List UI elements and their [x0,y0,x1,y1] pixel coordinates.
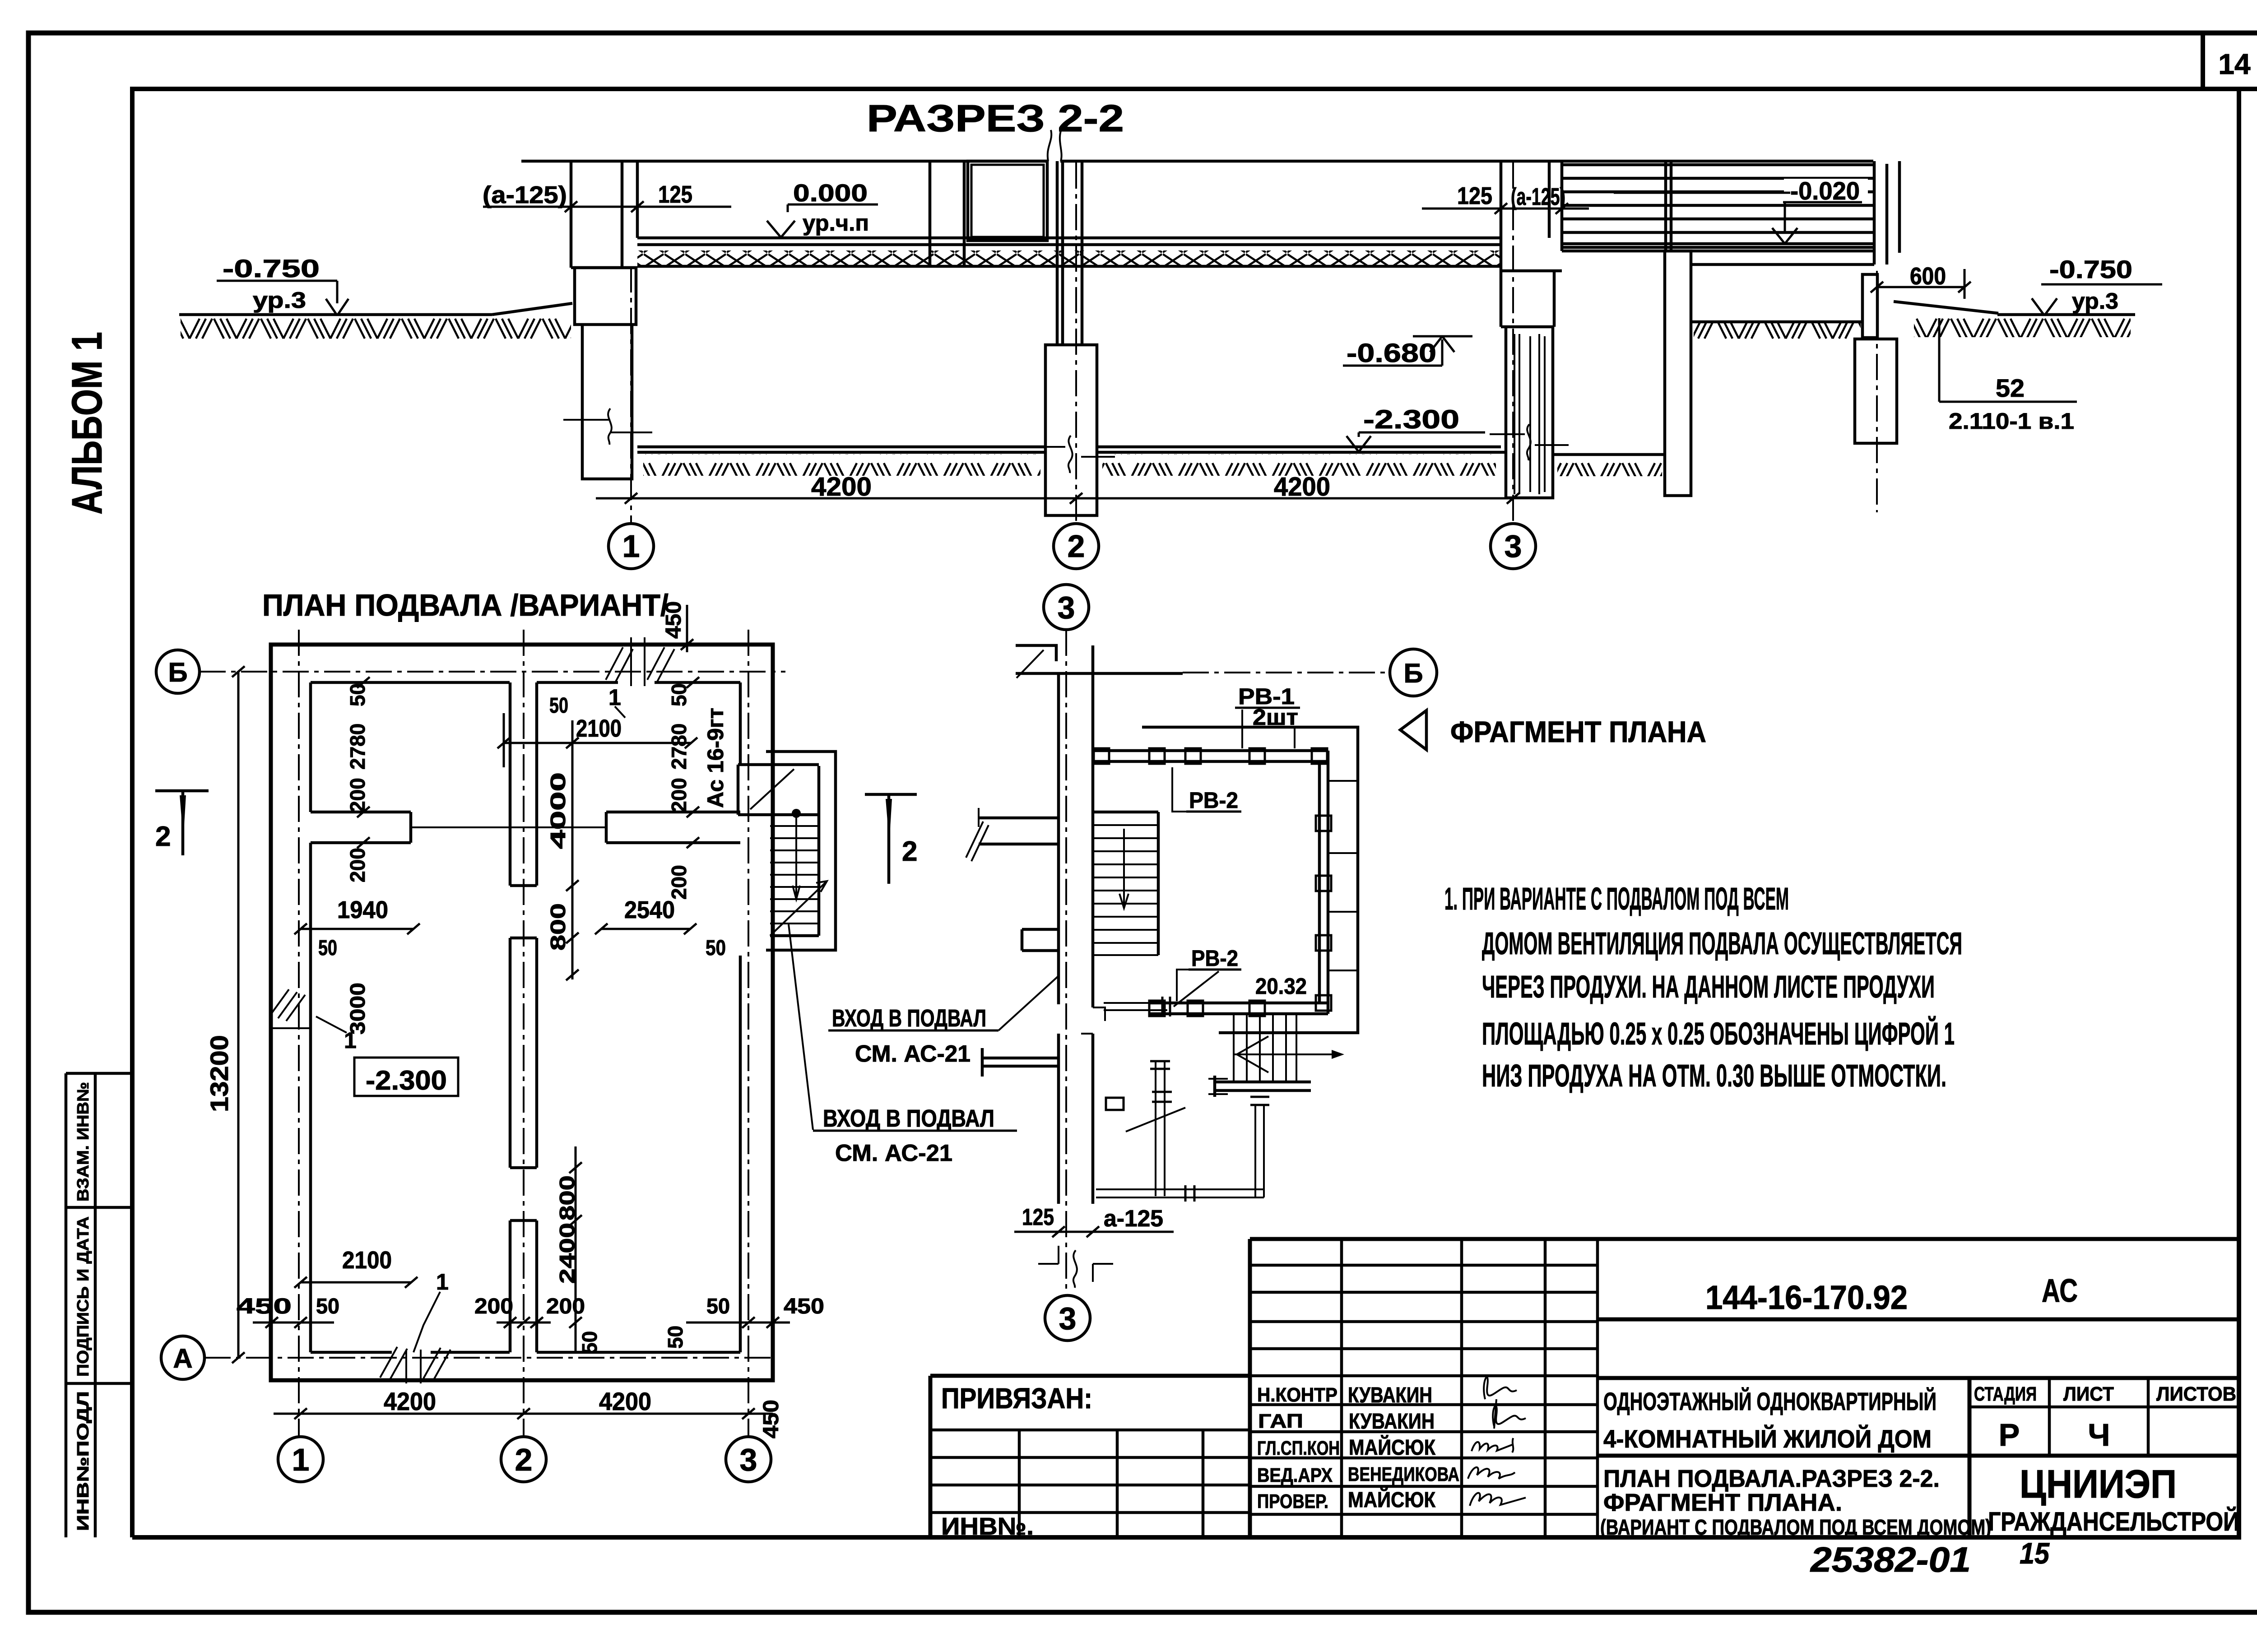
svg-text:ЦНИИЭП: ЦНИИЭП [2020,1462,2177,1506]
svg-text:Р: Р [1999,1417,2020,1452]
stair up diagonal [770,881,827,936]
svg-text:125: 125 [1022,1204,1054,1230]
vertical dim 13200 [205,666,245,1363]
left margin table [66,1073,132,1537]
svg-text:200: 200 [546,1295,585,1318]
svg-text:450: 450 [759,1400,783,1439]
axis А line [204,1357,773,1359]
svg-text:450: 450 [237,1295,292,1318]
plan axis circle 2 [501,1437,546,1482]
plan axis circle 3 [726,1437,771,1482]
svg-text:14: 14 [2218,48,2251,80]
leader diagonal to pipes [1126,1108,1185,1132]
svg-text:1: 1 [292,1442,310,1477]
svg-text:ВХОД В ПОДВАЛ: ВХОД В ПОДВАЛ [823,1105,994,1132]
svg-text:ПРОВЕР.: ПРОВЕР. [1257,1490,1328,1513]
svg-text:1940: 1940 [337,896,388,923]
svg-text:ПЛАН ПОДВАЛА /ВАРИАНТ/: ПЛАН ПОДВАЛА /ВАРИАНТ/ [262,588,669,622]
svg-text:2: 2 [155,821,171,852]
signature 2 [1493,1399,1526,1429]
left ground line [179,303,572,315]
svg-text:4200: 4200 [811,472,872,501]
piping vertical 1 [1150,1061,1172,1196]
level box -2.300 [354,1058,458,1096]
svg-text:Ас 16-9гт: Ас 16-9гт [703,708,728,808]
svg-text:2100: 2100 [342,1247,392,1274]
svg-text:АЛЬБОМ 1: АЛЬБОМ 1 [63,332,111,515]
dim 2540 [595,896,726,960]
axis 3 basement pier [1506,327,1553,498]
porch right post [1862,274,1877,338]
svg-text:ЧЕРЕЗ ПРОДУХИ. НА ДАННОМ ЛИСТЕ: ЧЕРЕЗ ПРОДУХИ. НА ДАННОМ ЛИСТЕ ПРОДУХИ [1482,969,1935,1004]
dim 125 a-125 fragment [1014,1204,1174,1237]
label РВ-2 upper [1172,767,1241,813]
plan axis 1 line [298,630,300,1437]
elevation -0.020 [1614,176,1868,244]
outer-wall ties right [1328,781,1358,970]
plan axis circle 1 [278,1437,323,1482]
svg-text:Ч: Ч [2088,1417,2110,1452]
vent opening left wall [270,989,311,1028]
plan axis 3 line [748,630,749,1437]
dim 2100 bottom [294,1247,418,1288]
signature 1 [1484,1377,1517,1399]
BASEMENT PLAN [155,588,917,1482]
svg-text:(а-125): (а-125) [1511,183,1565,210]
plan right inner wall line [739,682,742,1352]
svg-text:2100: 2100 [576,715,622,742]
fragment axis Б circle [1390,649,1437,696]
elevation mark -0.750 right [2032,255,2162,316]
svg-text:СМ. АС-21: СМ. АС-21 [835,1140,952,1166]
svg-text:ур.3: ур.3 [2072,288,2118,314]
svg-text:ГАП: ГАП [1258,1410,1303,1432]
dim 450 top rotated [662,601,693,652]
svg-text:0.000: 0.000 [793,180,868,207]
svg-text:ИНВ№ПОДЛ: ИНВ№ПОДЛ [74,1391,92,1531]
svg-text:ПОДПИСЬ И ДАТА: ПОДПИСЬ И ДАТА [74,1216,92,1377]
fragment room bottom wall [1149,1003,1328,1014]
ground floor slab lines [637,238,1501,266]
bottom dimension line 4200 4200 [274,1387,783,1439]
small table rows [1250,1265,1598,1376]
label РВ-2 lower [1177,946,1241,1001]
NOTES [1400,710,1962,1093]
exterior stair [1208,1014,1344,1097]
plan left inner wall line [309,682,312,1352]
small wall box [1106,1098,1124,1110]
section axis circle 3 [1491,524,1536,569]
bottom dims 450 50 200 200 50 450 [237,1295,824,1354]
porch deck lines [1562,165,1874,265]
svg-text:ДОМОМ ВЕНТИЛЯЦИЯ ПОДВАЛА ОСУЩЕ: ДОМОМ ВЕНТИЛЯЦИЯ ПОДВАЛА ОСУЩЕСТВЛЯЕТСЯ [1482,926,1962,961]
dim (a-125) left [483,181,731,212]
fragment room outer boundary [1142,727,1358,1033]
svg-text:ПРИВЯЗАН:: ПРИВЯЗАН: [941,1382,1092,1415]
fragment axis Б line [1183,672,1390,673]
basement floor ground hatch [643,454,1040,476]
svg-text:ЛИСТОВ: ЛИСТОВ [2156,1383,2236,1405]
svg-text:4-КОМНАТНЫЙ ЖИЛОЙ ДОМ: 4-КОМНАТНЫЙ ЖИЛОЙ ДОМ [1603,1425,1932,1453]
svg-text:25382-01: 25382-01 [1810,1540,1971,1579]
wall stub upper with break [979,818,1059,844]
fragment axis 3 line [1065,630,1067,1295]
label РВ-1 2шт [1235,684,1300,748]
svg-text:3: 3 [1059,1301,1077,1336]
svg-text:А: А [173,1343,192,1374]
porch deck joints [1666,161,1899,265]
svg-text:-2.300: -2.300 [1363,405,1459,434]
axis 2 pier break symbol [1029,436,1115,473]
house corner top left [1016,645,1183,673]
TITLE BLOCK [930,1239,2239,1579]
svg-text:ПЛОЩАДЬЮ 0.25 х 0.25 ОБОЗНАЧЕН: ПЛОЩАДЬЮ 0.25 х 0.25 ОБОЗНАЧЕНЫ ЦИФРОЙ 1 [1482,1016,1955,1051]
fragment plan pointer triangle [1400,710,1426,750]
rotated dims left wall [343,677,384,882]
central wall segment bottom [510,1220,537,1352]
svg-text:4200: 4200 [599,1387,651,1415]
svg-text:Б: Б [1403,658,1423,688]
axis 2 partition wall [1057,161,1082,345]
svg-text:3: 3 [1058,590,1075,625]
piping horizontal [1096,1185,1264,1202]
svg-text:ВЕД.АРХ: ВЕД.АРХ [1257,1464,1333,1486]
interior cross wall left part [311,812,411,843]
plan outer walls [271,645,773,1380]
pipe top run [1104,971,1219,1016]
vent squares bottom wall [1149,1001,1265,1016]
svg-text:-0.750: -0.750 [2049,255,2132,283]
left table rows [930,1430,1250,1513]
svg-text:144-16-170.92: 144-16-170.92 [1705,1279,1908,1316]
dim 1940 [294,896,420,960]
svg-text:-0.750: -0.750 [223,254,320,283]
central wall segment middle [510,938,537,1168]
vent squares top wall [1094,748,1327,764]
svg-text:НИЗ ПРОДУХА НА ОТМ. 0.30 ВЫШЕ: НИЗ ПРОДУХА НА ОТМ. 0.30 ВЫШЕ ОТМОСТКИ. [1482,1058,1946,1093]
FRAGMENT PLAN [813,585,1437,1341]
svg-text:-0.020: -0.020 [1790,176,1860,205]
vent label 1 left [316,1016,357,1053]
svg-text:2: 2 [1068,529,1085,564]
svg-text:4000: 4000 [546,772,570,849]
svg-text:ГРАЖДАНСЕЛЬСТРОЙ: ГРАЖДАНСЕЛЬСТРОЙ [1988,1507,2239,1536]
svg-text:ВХОД В ПОДВАЛ: ВХОД В ПОДВАЛ [832,1005,986,1032]
axis 1 wall above ground [571,161,637,268]
basement floor lines [637,447,1663,455]
svg-text:(а-125): (а-125) [483,181,567,209]
svg-text:-2.300: -2.300 [366,1065,447,1095]
fragment room top wall [1095,751,1328,761]
svg-text:РАЗРЕЗ 2-2: РАЗРЕЗ 2-2 [867,97,1124,139]
svg-text:3: 3 [1505,529,1522,564]
title block outline [930,1239,2239,1537]
svg-text:2780: 2780 [346,724,369,770]
svg-text:-0.680: -0.680 [1347,339,1436,368]
elevation -0.680 [1343,336,1472,368]
bottom wall vent opening 1 [380,1347,450,1383]
wall break squiggle bottom [1038,1246,1113,1288]
axis 3 wall [1501,161,1562,327]
elevation 0.000 [767,180,878,237]
leader to entrance label 2 [789,924,813,1130]
svg-text:Б: Б [168,657,187,687]
wall stub lower [982,1048,1059,1077]
svg-text:200: 200 [346,848,369,882]
svg-text:МАЙСЮК: МАЙСЮК [1348,1487,1436,1512]
svg-text:2шт: 2шт [1253,705,1298,730]
svg-text:РВ-2: РВ-2 [1189,788,1238,813]
svg-text:50: 50 [318,936,337,960]
svg-text:КУВАКИН: КУВАКИН [1349,1410,1435,1434]
svg-text:МАЙСЮК: МАЙСЮК [1349,1435,1436,1460]
section axis lines [631,162,1513,523]
svg-text:ФРАГМЕНТ ПЛАНА: ФРАГМЕНТ ПЛАНА [1450,715,1706,748]
interior cross wall right part [606,812,740,843]
svg-text:4200: 4200 [1274,472,1330,501]
svg-text:50: 50 [664,1326,687,1349]
axis 2 basement pier [1045,345,1097,515]
plan bottom inner wall line [311,1351,740,1354]
svg-text:ЛИСТ: ЛИСТ [2063,1383,2114,1405]
axis 1 pier break symbol [563,408,652,445]
svg-text:1. ПРИ ВАРИАНТЕ С ПОДВАЛОМ ПОД: 1. ПРИ ВАРИАНТЕ С ПОДВАЛОМ ПОД ВСЕМ [1444,881,1789,916]
staff rows [1250,1405,1598,1514]
axis 1 foundation block [575,268,636,325]
left table columns [1019,1430,1203,1537]
svg-text:ИНВ№.: ИНВ№. [941,1513,1034,1540]
axis 3 foundation [1501,271,1554,327]
signature 5 [1470,1493,1526,1506]
section mark 2 right of plan [865,794,917,884]
interior wall centerline [411,826,606,828]
dim 2100 top [497,694,697,767]
svg-text:Н.КОНТР: Н.КОНТР [1257,1384,1337,1406]
svg-text:АС: АС [2042,1273,2078,1309]
axis 3 pier break symbol [1490,424,1569,460]
rotated dims middle bottom [555,1146,582,1352]
svg-text:ВЗАМ. ИНВ№: ВЗАМ. ИНВ№ [74,1082,92,1202]
section axis circle 1 [608,524,654,569]
signature 4 [1468,1467,1515,1479]
top wall vent opening 1 [606,637,674,686]
svg-text:1: 1 [622,529,640,564]
svg-text:450: 450 [784,1295,824,1318]
svg-text:200: 200 [667,865,691,900]
fragment axis 3 circle top [1044,585,1089,630]
dim 600 [1871,263,1971,299]
svg-text:ур.3: ур.3 [253,288,306,313]
vent label 1 top [608,685,625,718]
section mark 2 left [155,791,209,855]
svg-text:50: 50 [706,1295,730,1318]
wall door jamb marks [1081,1007,1105,1048]
axis Б line [200,671,785,673]
porch middle post [1665,251,1691,496]
svg-text:13200: 13200 [205,1035,233,1112]
dim 125 (a-125) right [1422,182,1589,214]
stair treads [770,826,819,923]
central wall segment top [510,682,537,886]
right section lines [1598,1319,2239,1537]
svg-text:200: 200 [667,778,691,812]
right blind area slope [1894,302,2135,315]
svg-text:450: 450 [662,601,686,639]
svg-text:ФРАГМЕНТ ПЛАНА.: ФРАГМЕНТ ПЛАНА. [1603,1489,1842,1516]
svg-text:1: 1 [608,685,621,710]
rotated dims middle [546,720,579,980]
axis 1 basement pier [582,325,632,479]
stair enclosure [766,752,836,950]
svg-text:3: 3 [740,1442,757,1477]
piping vertical 2 [1250,1097,1269,1197]
svg-text:2.110-1 в.1: 2.110-1 в.1 [1949,408,2074,434]
svg-text:2: 2 [515,1442,533,1477]
svg-text:600: 600 [1910,263,1946,290]
svg-text:СТАДИЯ: СТАДИЯ [1974,1383,2037,1405]
entrance label 2 [813,1105,1017,1166]
fragment axis 3 circle bottom [1045,1295,1090,1341]
landing ramp diagonal [750,769,794,809]
wall stub middle [1022,929,1059,951]
axis А circle [161,1336,204,1379]
svg-text:50: 50 [549,694,568,718]
porch right footing [1855,339,1897,443]
svg-text:РВ-2: РВ-2 [1191,946,1238,971]
svg-text:200: 200 [346,778,369,812]
svg-text:ГЛ.СП.КОН: ГЛ.СП.КОН [1257,1437,1340,1459]
svg-text:50: 50 [706,936,726,960]
plan top inner wall line [311,681,740,684]
svg-text:КУВАКИН: КУВАКИН [1348,1383,1432,1407]
elevation -2.300 [1347,405,1485,452]
fragment stair [1093,812,1158,955]
svg-text:2: 2 [902,836,917,867]
rotated dims right wall [667,677,699,900]
entrance label 1 [828,976,1058,1067]
section top edge line [521,160,1873,163]
section dimension line 4200+4200 [596,497,1513,500]
svg-text:125: 125 [1457,182,1492,209]
svg-text:3000: 3000 [346,983,369,1035]
svg-text:2780: 2780 [667,724,691,770]
axis 3 wall lines [1059,645,1093,1204]
svg-text:52: 52 [1996,374,2025,402]
elevation -0.750 left [217,254,348,316]
break squiggle at section line 2 [1048,130,1062,161]
svg-text:15: 15 [2020,1536,2050,1570]
axis Б circle [156,650,200,693]
svg-text:200: 200 [474,1295,513,1318]
svg-text:50: 50 [316,1295,339,1318]
svg-text:ПЛАН ПОДВАЛА.РАЗРЕЗ 2-2.: ПЛАН ПОДВАЛА.РАЗРЕЗ 2-2. [1603,1465,1940,1492]
vent label 1 bottom [413,1269,449,1352]
SECTION 2-2 [179,97,2162,569]
fragment room right wall [1319,751,1328,1014]
svg-text:(ВАРИАНТ С ПОДВАЛОМ ПОД ВСЕМ Д: (ВАРИАНТ С ПОДВАЛОМ ПОД ВСЕМ ДОМОМ) [1600,1516,1991,1540]
signature 3 [1472,1438,1513,1452]
svg-text:2540: 2540 [624,896,675,923]
stair walk line with dot [792,809,801,818]
plan axis 2 line [523,630,525,1437]
sheet number box 14 [2203,33,2257,89]
floor slab cross hatch [637,251,1501,265]
stair entrance landing [738,765,819,815]
section axis circle 2 [1054,524,1099,569]
svg-text:800: 800 [546,903,570,951]
svg-text:СМ. АС-21: СМ. АС-21 [855,1041,971,1067]
small table columns [1342,1239,1598,1537]
svg-text:а-125: а-125 [1104,1206,1163,1232]
svg-text:50: 50 [578,1331,601,1354]
window opening near axis 2 [930,161,964,266]
ref 52 / 2.110-1 в.1 [1939,318,2077,434]
svg-text:125: 125 [658,181,692,208]
svg-text:ОДНОЭТАЖНЫЙ ОДНОКВАРТИРНЫЙ: ОДНОЭТАЖНЫЙ ОДНОКВАРТИРНЫЙ [1603,1387,1937,1415]
vent squares right wall [1316,816,1331,1011]
porch ground line [1691,320,1862,324]
svg-text:20.32: 20.32 [1255,974,1307,999]
svg-text:ур.ч.п: ур.ч.п [803,210,869,236]
svg-text:4200: 4200 [384,1387,436,1415]
svg-text:1: 1 [436,1269,449,1295]
svg-text:ВЕНЕДИКОВА: ВЕНЕДИКОВА [1348,1463,1459,1485]
